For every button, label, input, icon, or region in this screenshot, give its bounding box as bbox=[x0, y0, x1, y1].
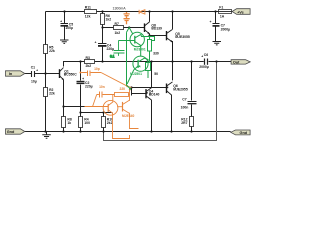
node R10 top row bbox=[102, 111, 104, 113]
svg-text:MJE2955: MJE2955 bbox=[173, 87, 188, 91]
svg-text:BD140: BD140 bbox=[149, 93, 160, 97]
svg-text:BD139: BD139 bbox=[151, 26, 162, 30]
resistor R7 1k2 bbox=[114, 22, 124, 35]
wire green left drop bbox=[127, 32, 131, 89]
wire green base row bbox=[119, 40, 135, 42]
node ground rail R8 bbox=[62, 130, 64, 132]
svg-text:C1: C1 bbox=[31, 65, 35, 69]
wire orange compensation diagonal bbox=[101, 73, 132, 88]
resistor green 50 bbox=[146, 63, 151, 71]
wire R7 node to Q8 base bbox=[103, 27, 145, 29]
svg-text:220: 220 bbox=[120, 87, 126, 91]
svg-text:R7: R7 bbox=[115, 22, 119, 26]
wire feedback row A bbox=[64, 106, 85, 108]
svg-text:C6: C6 bbox=[204, 53, 208, 57]
diode D3 series in rail bbox=[139, 10, 145, 14]
node ground rail R10 bbox=[102, 130, 104, 132]
resistor R11 12k bbox=[85, 6, 97, 19]
node rail R6 bbox=[101, 10, 103, 12]
node ground rail R2 bbox=[44, 130, 46, 132]
node ground rail R4 bbox=[79, 130, 81, 132]
transistor Q4 BD140 bbox=[146, 88, 152, 100]
node output zobel bbox=[190, 60, 192, 62]
svg-text:22k: 22k bbox=[49, 92, 55, 96]
node ground rail R12 bbox=[190, 130, 192, 132]
node bootstrap A bbox=[101, 26, 103, 28]
transistor Qa orange bbox=[103, 100, 118, 115]
terminal +Ve bbox=[232, 9, 250, 15]
svg-text:10p: 10p bbox=[94, 67, 100, 71]
node Q1 emitter row bbox=[62, 105, 64, 107]
svg-text:Gnd: Gnd bbox=[7, 130, 15, 134]
capacitor C5 100u bbox=[60, 20, 73, 31]
wire Q1 emitter down bbox=[63, 80, 65, 107]
svg-text:100: 100 bbox=[84, 121, 90, 125]
node output C6 right bbox=[215, 60, 217, 62]
svg-text:1k: 1k bbox=[67, 121, 71, 125]
wire zobel column bbox=[191, 62, 193, 132]
capacitor green bbox=[114, 41, 125, 56]
svg-text:220µ: 220µ bbox=[85, 84, 93, 88]
resistor R5 22k bbox=[44, 45, 55, 54]
resistor R12 2R7 bbox=[181, 117, 193, 127]
terminal In bbox=[6, 71, 25, 76]
svg-text:1k2: 1k2 bbox=[115, 31, 121, 35]
svg-text:22k: 22k bbox=[49, 49, 55, 53]
node Q1 collector C2 bbox=[79, 60, 81, 62]
svg-text:MJE3055: MJE3055 bbox=[175, 35, 190, 39]
ground below C5 bbox=[60, 40, 69, 43]
wire Q8 collector bbox=[149, 12, 151, 22]
resistor R2 22k bbox=[44, 88, 55, 97]
svg-text:1A: 1A bbox=[220, 14, 225, 18]
ground below bottom rail left bbox=[42, 135, 51, 138]
transistor Q8 BD139 bbox=[145, 22, 150, 36]
svg-text:50: 50 bbox=[154, 72, 158, 76]
svg-text:2000µ: 2000µ bbox=[199, 65, 209, 69]
resistor green 330 bbox=[148, 40, 152, 52]
transistor Qg1 MJ3001 bbox=[130, 32, 144, 46]
node Q5 base bbox=[130, 86, 132, 88]
wire Q5 base bbox=[132, 87, 167, 89]
svg-text:Gnd: Gnd bbox=[240, 131, 248, 135]
terminal Gnd right bbox=[231, 130, 250, 135]
wire mid output rail bbox=[95, 61, 232, 63]
svg-text:2k2: 2k2 bbox=[86, 64, 92, 68]
wire Q4 collector down bbox=[151, 100, 153, 132]
node C2 bottom row bbox=[79, 111, 81, 113]
wire orange mid row bbox=[93, 95, 130, 107]
green modification overlay bbox=[110, 28, 159, 90]
node Q8 base green tap bbox=[128, 26, 130, 28]
svg-text:+Ve: +Ve bbox=[237, 10, 244, 14]
capacitor C6 2000u output bbox=[199, 53, 209, 69]
resistor R10 2k2 bbox=[102, 117, 114, 128]
capacitor Cn 10n bbox=[100, 92, 103, 98]
capacitor C4 220u bootstrap bbox=[95, 41, 115, 52]
svg-text:+: + bbox=[60, 20, 62, 24]
resistor Ro 220 bbox=[115, 93, 129, 97]
diode D1 bbox=[124, 12, 130, 16]
wire top supply rail bbox=[46, 11, 233, 13]
wire Q6 collector bbox=[172, 12, 174, 30]
terminal Out bbox=[231, 60, 250, 65]
wire Q1 emitter to R8 bbox=[63, 107, 65, 132]
svg-text:2000µ: 2000µ bbox=[221, 27, 231, 31]
svg-text:F1: F1 bbox=[219, 6, 223, 10]
capacitor Cf 10p bbox=[88, 71, 91, 77]
wire bottom ground rail bbox=[25, 131, 231, 133]
node rail Q8 collector bbox=[148, 10, 150, 12]
wire C5 branch bbox=[64, 12, 66, 40]
terminal Gnd left bbox=[6, 129, 25, 134]
wire C7 supply filter branch bbox=[215, 12, 217, 42]
node output center bbox=[171, 60, 173, 62]
svg-text:2k2: 2k2 bbox=[107, 121, 113, 125]
node ground rail Q5 bbox=[170, 130, 172, 132]
node output Q4 bbox=[150, 60, 152, 62]
orange modification overlay bbox=[80, 7, 145, 139]
resistor R4 100 bbox=[79, 117, 91, 128]
wire feedback row B bbox=[81, 112, 113, 114]
capacitor C7 100n zobel bbox=[181, 98, 197, 110]
svg-text:1300mA: 1300mA bbox=[113, 7, 127, 11]
svg-text:330: 330 bbox=[153, 52, 159, 56]
wire Q4 emitter to output rail bbox=[151, 62, 153, 88]
wire left vertical from rail to R5 to input node to R2 to ground rail bbox=[45, 12, 47, 132]
svg-text:2R7: 2R7 bbox=[181, 121, 187, 125]
svg-text:MJ3001: MJ3001 bbox=[134, 48, 146, 52]
transistor Q1 BC550C bbox=[60, 68, 64, 81]
svg-text:100µ: 100µ bbox=[65, 26, 73, 30]
svg-text:+: + bbox=[210, 20, 212, 24]
wire Q8 emitter to Q6 base bbox=[150, 35, 167, 37]
svg-text:12k: 12k bbox=[85, 14, 91, 18]
wire input to Q1 base bbox=[25, 73, 59, 75]
wire Q1 collector up and over bbox=[64, 62, 85, 67]
transistor Q5 MJE2955 bbox=[167, 82, 173, 95]
wire Q4 base tap bbox=[132, 88, 146, 96]
svg-text:+: + bbox=[95, 41, 97, 45]
node input bias bbox=[44, 72, 46, 74]
transistor Qg2 MJ2501 bbox=[133, 56, 148, 71]
fuse F1 1A bbox=[219, 6, 232, 19]
wire C2 column bbox=[80, 62, 82, 132]
wire Q6 emitter / Q5 emitter column bbox=[172, 41, 174, 80]
capacitor C2 220u bbox=[77, 77, 93, 89]
node Q8 emitter Q6 base bbox=[148, 34, 150, 36]
svg-text:C7: C7 bbox=[182, 98, 186, 102]
node rail fuse C7 bbox=[214, 10, 216, 12]
svg-text:R11: R11 bbox=[85, 6, 91, 10]
resistor R8 1k bbox=[62, 117, 72, 128]
node ground rail Q4 bbox=[150, 130, 152, 132]
svg-text:0.1: 0.1 bbox=[110, 55, 115, 59]
node rail C5 bbox=[63, 10, 65, 12]
svg-text:+: + bbox=[82, 77, 84, 81]
svg-text:100n: 100n bbox=[181, 106, 189, 110]
svg-text:MJ2501: MJ2501 bbox=[130, 72, 142, 76]
wire R6 C4 bootstrap column bbox=[102, 12, 104, 62]
svg-text:R3: R3 bbox=[86, 56, 90, 60]
node rail Q6 collector bbox=[171, 10, 173, 12]
wire speaker return loop bbox=[104, 62, 217, 141]
svg-text:10n: 10n bbox=[99, 85, 105, 89]
capacitor C1 10u bbox=[31, 65, 38, 83]
wire ground stub left bbox=[46, 132, 48, 135]
wire Q5 collector down bbox=[171, 95, 173, 132]
svg-text:BC550C: BC550C bbox=[64, 73, 78, 77]
capacitor C7 2000u supply bbox=[210, 20, 231, 31]
svg-text:10µ: 10µ bbox=[31, 79, 37, 83]
resistor R6 1k2 bbox=[101, 14, 112, 25]
svg-text:1k2: 1k2 bbox=[106, 18, 112, 22]
svg-text:MJE340: MJE340 bbox=[122, 114, 134, 118]
transistor Q6 MJE3055 bbox=[167, 29, 173, 61]
resistor R3 2k2 bbox=[85, 56, 95, 68]
ground below C7 bbox=[213, 42, 222, 45]
svg-text:Out: Out bbox=[233, 60, 240, 64]
node junction dots bbox=[44, 10, 217, 132]
svg-text:+: + bbox=[36, 69, 38, 73]
diode D2 bbox=[124, 16, 130, 24]
wire green tap lambda bbox=[127, 28, 133, 34]
svg-text:220µ: 220µ bbox=[107, 47, 115, 51]
wire orange emitter return bbox=[113, 113, 130, 139]
transistor Qb orange MJE340 bbox=[122, 102, 124, 112]
node bootstrap bottom bbox=[101, 60, 103, 62]
wire R10 column bbox=[103, 113, 105, 132]
